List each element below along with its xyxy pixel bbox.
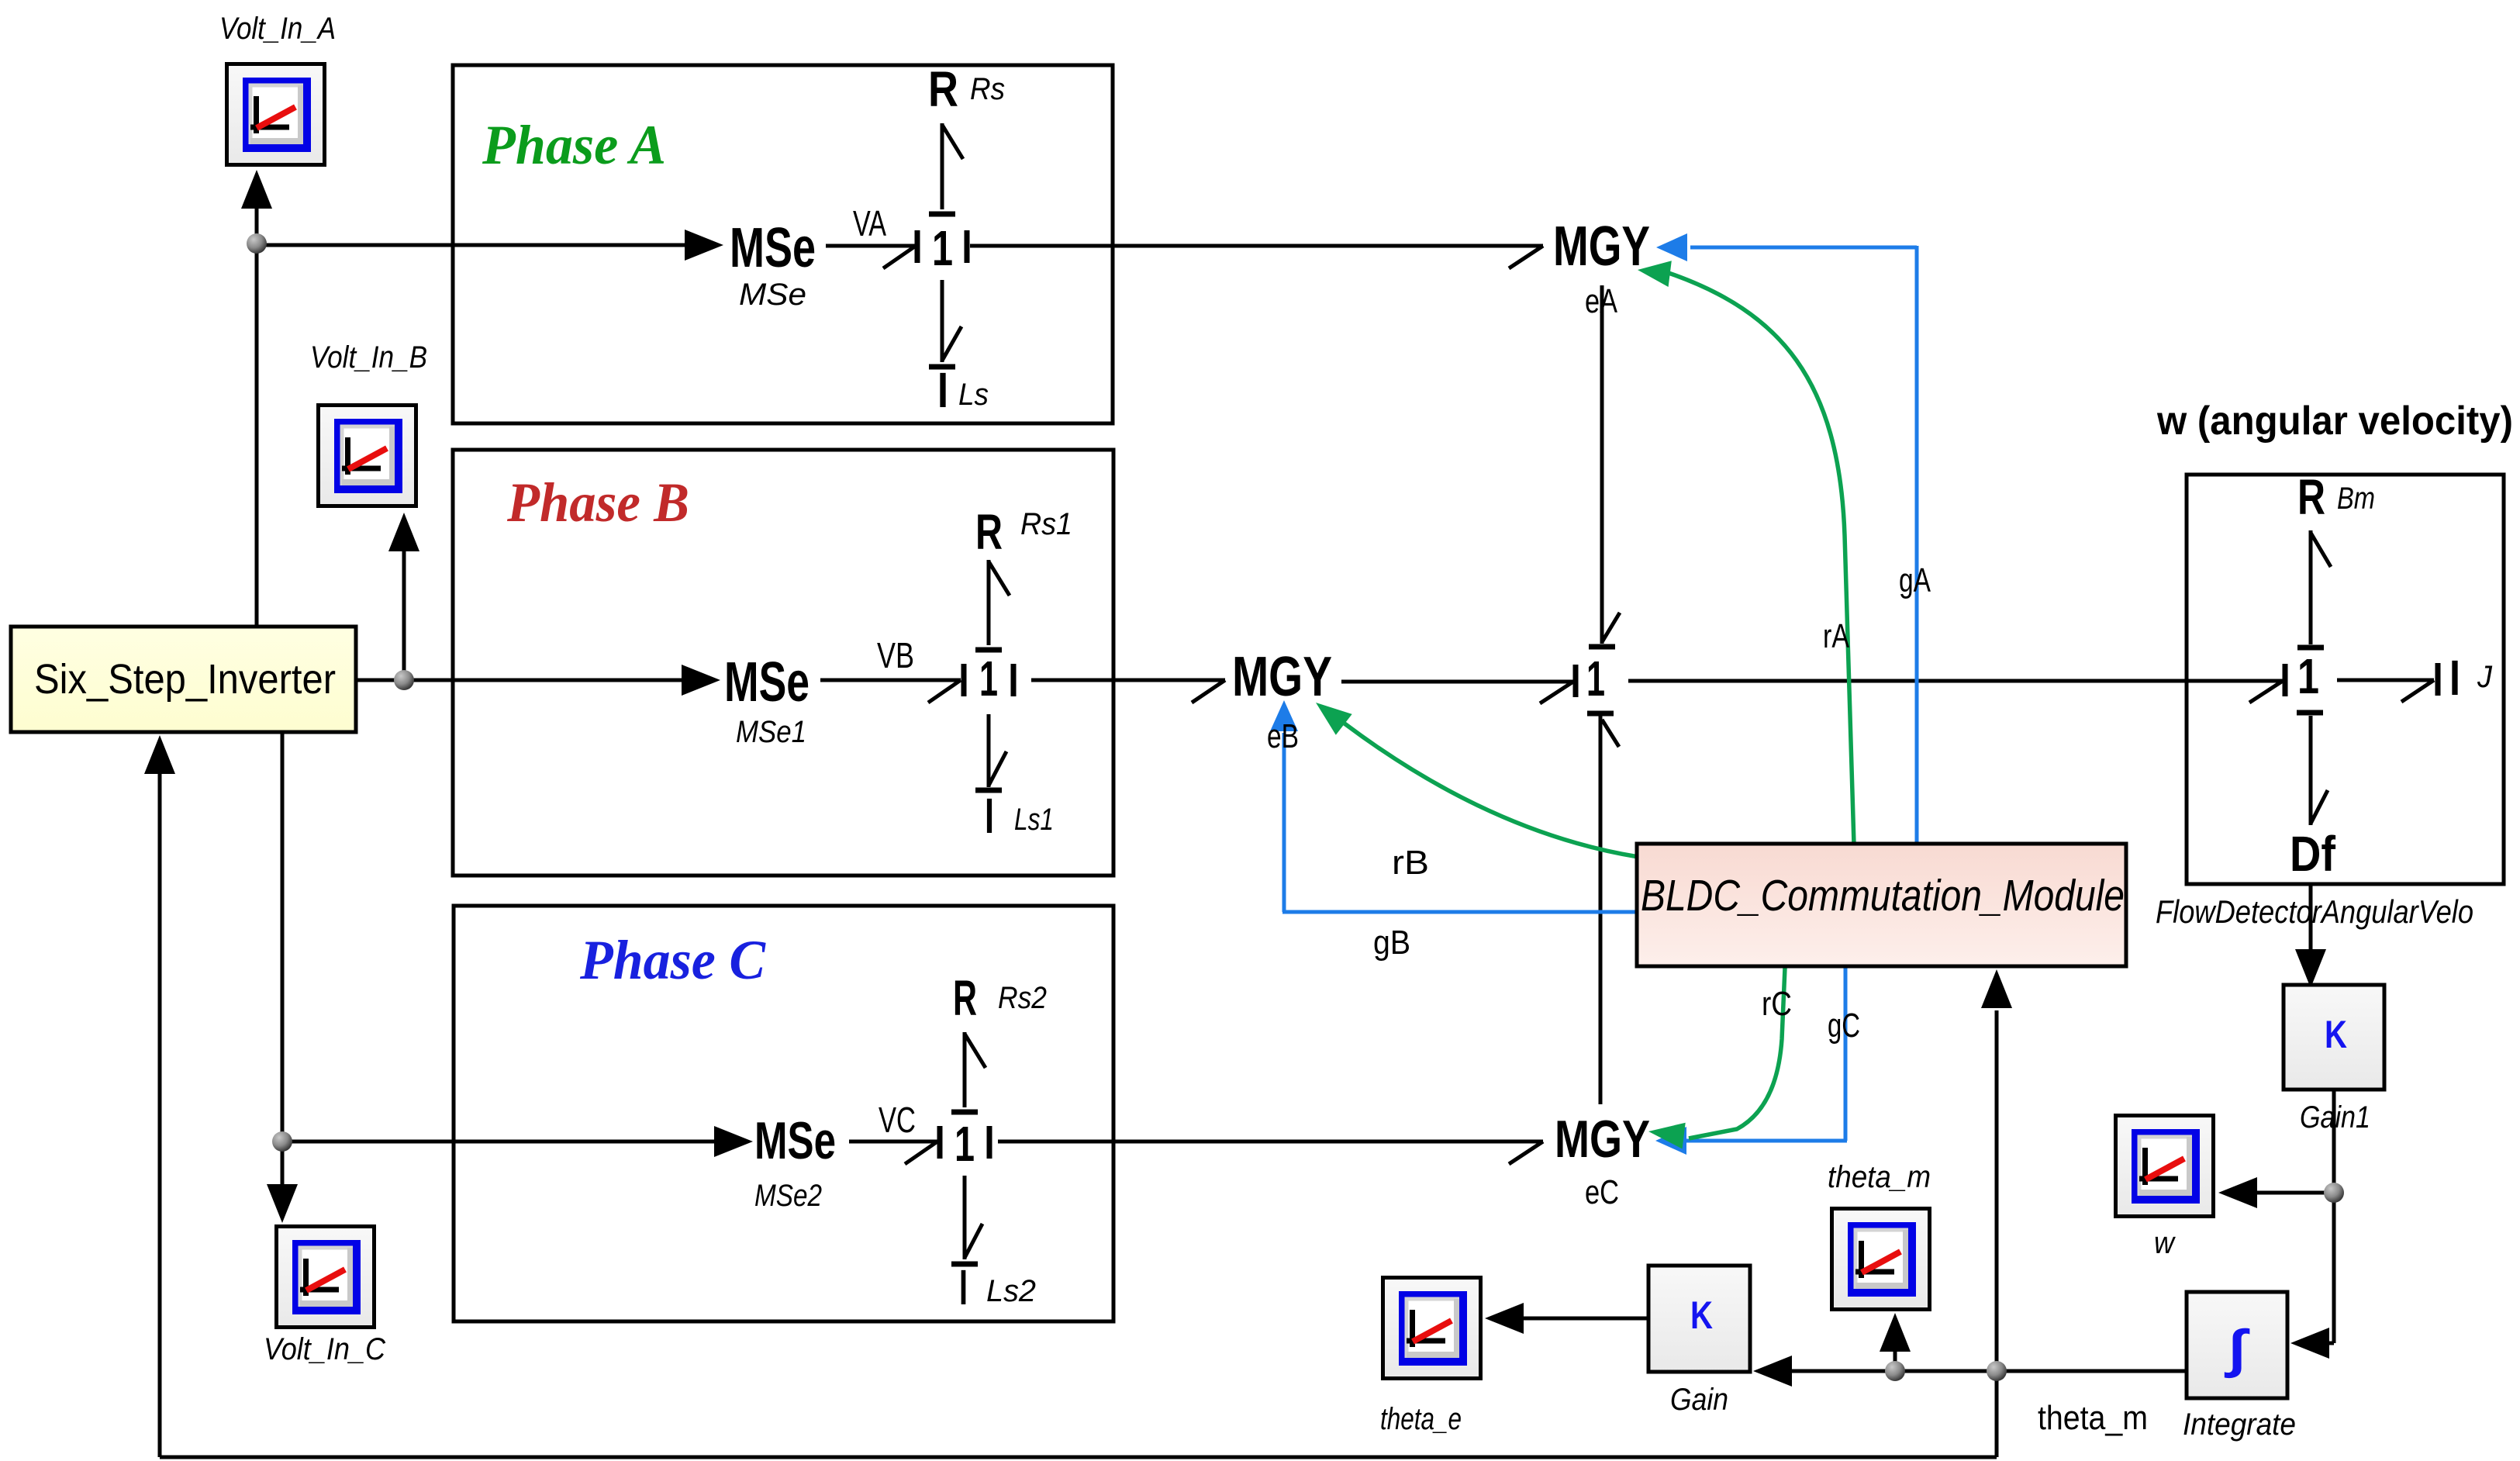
svg-text:MSe: MSe xyxy=(754,1111,836,1170)
svg-text:MSe: MSe xyxy=(724,651,810,713)
svg-text:1: 1 xyxy=(932,220,953,276)
svg-text:MGY: MGY xyxy=(1555,1110,1650,1169)
svg-text:MSe1: MSe1 xyxy=(736,715,806,749)
svg-text:gB: gB xyxy=(1373,924,1410,962)
svg-text:MSe: MSe xyxy=(739,278,806,312)
svg-text:Volt_In_C: Volt_In_C xyxy=(264,1332,386,1366)
svg-text:1: 1 xyxy=(979,651,998,706)
svg-text:Phase A: Phase A xyxy=(482,114,666,176)
svg-text:theta_m: theta_m xyxy=(2038,1399,2148,1437)
svg-text:MSe: MSe xyxy=(730,217,816,279)
svg-text:Df: Df xyxy=(2290,826,2336,882)
svg-text:Phase B: Phase B xyxy=(506,471,689,534)
svg-text:rC: rC xyxy=(1762,985,1792,1023)
svg-text:eB: eB xyxy=(1267,717,1299,755)
svg-text:theta_m: theta_m xyxy=(1828,1160,1931,1194)
svg-text:rB: rB xyxy=(1392,844,1429,882)
svg-text:MSe2: MSe2 xyxy=(754,1179,822,1213)
svg-text:w: w xyxy=(2154,1226,2177,1260)
svg-text:Rs: Rs xyxy=(970,72,1005,106)
svg-text:Ls2: Ls2 xyxy=(986,1274,1036,1308)
svg-text:I: I xyxy=(985,788,994,844)
svg-text:Ls1: Ls1 xyxy=(1014,803,1054,837)
svg-text:I: I xyxy=(2449,650,2460,706)
svg-text:Phase C: Phase C xyxy=(579,929,766,991)
svg-text:Rs1: Rs1 xyxy=(1020,507,1072,541)
svg-text:BLDC_Commutation_Module: BLDC_Commutation_Module xyxy=(1641,871,2125,920)
svg-text:Volt_In_B: Volt_In_B xyxy=(310,340,427,375)
svg-text:Volt_In_A: Volt_In_A xyxy=(219,12,336,46)
svg-text:theta_e: theta_e xyxy=(1380,1402,1462,1436)
svg-text:Ls: Ls xyxy=(958,378,989,412)
svg-text:R: R xyxy=(953,970,977,1026)
svg-text:MGY: MGY xyxy=(1232,646,1332,708)
svg-text:Rs2: Rs2 xyxy=(998,981,1047,1015)
svg-text:FlowDetectorAngularVelo: FlowDetectorAngularVelo xyxy=(2156,893,2473,930)
svg-text:eA: eA xyxy=(1585,282,1618,320)
svg-text:K: K xyxy=(2325,1013,2347,1056)
svg-text:Bm: Bm xyxy=(2337,482,2375,516)
svg-text:1: 1 xyxy=(1586,651,1605,706)
svg-text:eC: eC xyxy=(1585,1173,1619,1211)
svg-text:w (angular velocity): w (angular velocity) xyxy=(2156,399,2513,444)
svg-text:rA: rA xyxy=(1823,617,1850,655)
svg-text:J: J xyxy=(2477,660,2493,694)
svg-text:K: K xyxy=(1690,1293,1713,1337)
svg-text:R: R xyxy=(2297,469,2325,525)
svg-text:1: 1 xyxy=(2297,648,2319,704)
svg-text:gC: gC xyxy=(1828,1007,1860,1045)
svg-text:R: R xyxy=(975,504,1003,560)
svg-text:VB: VB xyxy=(877,635,914,675)
svg-text:Gain1: Gain1 xyxy=(2300,1100,2370,1135)
svg-text:I: I xyxy=(937,362,948,418)
svg-text:1: 1 xyxy=(954,1116,975,1172)
svg-text:Six_Step_Inverter: Six_Step_Inverter xyxy=(34,656,336,703)
svg-text:VA: VA xyxy=(853,203,886,243)
svg-text:I: I xyxy=(959,1259,968,1315)
svg-text:gA: gA xyxy=(1899,561,1931,599)
svg-text:Integrate: Integrate xyxy=(2183,1407,2296,1442)
svg-text:VC: VC xyxy=(879,1100,916,1140)
svg-text:R: R xyxy=(928,61,958,117)
svg-text:MGY: MGY xyxy=(1553,216,1650,278)
svg-text:Gain: Gain xyxy=(1670,1383,1728,1417)
